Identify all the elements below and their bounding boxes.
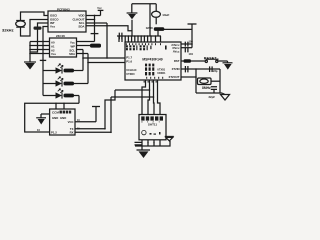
- pin label columns bottom: [145, 64, 154, 76]
- wire xtal bottom bus: [196, 92, 222, 94]
- svg-text:AVcc: AVcc: [173, 50, 180, 54]
- capacitor C6: [210, 66, 213, 72]
- svg-text:PCF8563: PCF8563: [57, 8, 70, 12]
- wire CCM gnd stub 2: [63, 103, 65, 109]
- wire U4 bottom stubs: [142, 140, 160, 146]
- wire U3 DVcc: [181, 43, 192, 45]
- wire D1 to net: [74, 70, 83, 72]
- svg-text:RST: RST: [174, 59, 180, 63]
- resistor R4: [90, 44, 101, 48]
- wire address bundle down: [29, 42, 31, 63]
- wire U3 XT2IN: [181, 68, 220, 70]
- wire U2 SDA to net: [77, 54, 89, 84]
- wire U2 VCC: [77, 41, 95, 43]
- capacitor C7: [211, 87, 217, 93]
- resistor R6: [184, 59, 192, 63]
- svg-text:SDA: SDA: [69, 52, 75, 56]
- wire U2 WP: [77, 45, 91, 47]
- svg-text:UTXD0: UTXD0: [126, 73, 135, 76]
- capacitor C4: [185, 47, 188, 52]
- wire U2 A2: [30, 49, 50, 51]
- svg-text:GND: GND: [146, 26, 154, 30]
- svg-text:XT2IN: XT2IN: [172, 67, 180, 71]
- junction: [29, 53, 31, 55]
- LED D1: [43, 64, 63, 74]
- wire SDA net U1 to bus: [86, 26, 132, 31]
- wire U4 bottom bus: [135, 145, 160, 147]
- svg-text:104: 104: [189, 39, 194, 43]
- ground GND5: [221, 93, 230, 100]
- junction: [149, 89, 151, 91]
- wire CCM VCC: [75, 121, 96, 123]
- capacitor C2: [119, 33, 122, 40]
- wire CCM gnd stub 1: [55, 103, 57, 109]
- LED D2: [43, 77, 63, 87]
- wire U3 RST: [181, 60, 205, 62]
- wire U3 XT2OUT: [181, 76, 196, 78]
- power VCC2 LED rail: [40, 60, 46, 95]
- wire U3 bottom pin 4: [158, 80, 161, 115]
- pin numbers below U3: [144, 81, 157, 83]
- junction: [195, 76, 197, 78]
- wire Y1 pin1 to U1 OSCI: [21, 12, 49, 21]
- wire Vcc link: [158, 29, 192, 36]
- wire Vcc vertical to U2: [94, 16, 96, 34]
- svg-text:Vss: Vss: [50, 25, 56, 29]
- module U5 CCM wireless: [50, 109, 75, 135]
- junction: [63, 103, 65, 105]
- resistor R3: [64, 94, 75, 98]
- wire U1 VDD: [86, 15, 101, 17]
- wire U1 CLKOUT: [86, 19, 95, 21]
- svg-text:SDA: SDA: [78, 25, 85, 29]
- svg-text:VCC: VCC: [68, 120, 74, 124]
- ground GND7: [165, 136, 174, 141]
- RTC U1 PCF8563: [48, 8, 86, 32]
- junction: [147, 142, 148, 143]
- capacitor C5: [185, 66, 188, 72]
- junction: [110, 132, 112, 134]
- pin numbers U4: [141, 121, 160, 124]
- wire top supply bus: [117, 35, 161, 37]
- svg-text:UCLKA0: UCLKA0: [126, 69, 137, 72]
- svg-text:P1.6: P1.6: [126, 59, 132, 63]
- junction: [191, 43, 193, 45]
- wire U2 A1: [30, 45, 50, 47]
- crystal Y2 8MHz: [198, 78, 221, 85]
- wire SCL to U3 P1.7: [83, 57, 125, 59]
- wire U1 VSS to rail: [43, 27, 48, 61]
- wire xtal right leg: [219, 69, 221, 93]
- net label Tx: [34, 27, 42, 30]
- wire SCL net U1 down: [86, 23, 107, 58]
- junction: [106, 57, 108, 59]
- svg-text:104: 104: [189, 52, 194, 56]
- svg-text:CCM: CCM: [52, 111, 59, 115]
- wire below gnd: [131, 20, 133, 36]
- ground GND2: [36, 118, 46, 125]
- ground GND6: [137, 146, 151, 158]
- ground GND1: [24, 62, 36, 70]
- svg-text:URXD1: URXD1: [157, 72, 166, 75]
- wire Y1 pin2 to U1 OSCO: [21, 20, 49, 37]
- svg-text:RX: RX: [70, 131, 74, 135]
- capacitor C3: [185, 42, 188, 47]
- junction: [82, 57, 84, 59]
- power VCC4: [188, 24, 197, 48]
- junction: [94, 19, 96, 21]
- svg-text:XT2OUT: XT2OUT: [168, 75, 179, 79]
- wire upper bus: [132, 3, 156, 5]
- power VCC1: [97, 7, 103, 15]
- svg-text:Vss: Vss: [51, 52, 56, 56]
- wire riser: [131, 4, 133, 13]
- sensor U4 SHT11: [139, 115, 166, 140]
- capacitor C8: [135, 142, 142, 145]
- pin labels UTXD1 URXD1: [157, 69, 166, 75]
- wire D3 to loop: [74, 96, 79, 104]
- pin number ticks bottom: [146, 77, 163, 79]
- EEPROM U2 24C16: [50, 34, 77, 57]
- power VCC3: [92, 107, 100, 122]
- crystal Y1 32kHz: [16, 20, 26, 27]
- wire riser 2: [149, 4, 151, 36]
- svg-text:10uF: 10uF: [162, 13, 169, 17]
- svg-text:GND: GND: [52, 116, 58, 120]
- junction: [104, 128, 106, 130]
- junction: [153, 96, 155, 98]
- wire U4 pin1 to gnd arrow: [160, 141, 170, 146]
- resistor R2: [64, 82, 75, 86]
- junction: [195, 68, 197, 70]
- pin label columns top: [126, 45, 167, 50]
- ground GND4: [223, 61, 233, 70]
- resistor R1: [64, 69, 75, 73]
- junction: [29, 45, 31, 47]
- junction row: [124, 35, 156, 37]
- wire U2 VSS: [30, 53, 50, 55]
- svg-text:24C16: 24C16: [56, 34, 65, 38]
- wire SDA to U3 P1.6: [88, 62, 125, 64]
- pin number ticks top: [126, 43, 161, 45]
- wire CCM loop: [25, 103, 79, 132]
- wire CCM gnd pin left: [41, 114, 50, 118]
- svg-text:MSP430F149: MSP430F149: [142, 57, 162, 61]
- ground GND3: [127, 13, 138, 19]
- wire U3 bottom pin 2: [148, 80, 150, 115]
- svg-text:GND: GND: [60, 116, 66, 120]
- junction: [94, 15, 96, 17]
- wire U2 A0: [30, 41, 50, 43]
- LED D3: [43, 89, 63, 99]
- svg-text:P1.2: P1.2: [51, 131, 57, 135]
- wire U2 SCL to net: [77, 50, 84, 71]
- wire U3 AVcc: [181, 47, 192, 49]
- MCU U3 MSP430F149: [125, 42, 181, 80]
- svg-text:22p: 22p: [213, 69, 218, 73]
- wire xtal left leg: [195, 69, 197, 93]
- wire D2 to net: [74, 83, 88, 85]
- junction: [55, 103, 57, 105]
- svg-text:32kHz: 32kHz: [2, 28, 14, 33]
- junction: [153, 142, 154, 143]
- switch S1: [205, 59, 227, 62]
- wire U3 top pin stubs: [119, 36, 161, 42]
- resistor R5: [154, 27, 165, 31]
- svg-text:22pF: 22pF: [209, 95, 216, 99]
- wire CCM TX to U3: [75, 90, 150, 129]
- wire U1 INT: [30, 23, 48, 52]
- junction: [29, 49, 31, 51]
- svg-text:8MHz: 8MHz: [202, 86, 211, 90]
- wire CCM RX to U3: [75, 97, 154, 132]
- wire U3 bottom pin 1: [142, 80, 146, 115]
- wire U3 bottom pin 3: [153, 80, 156, 115]
- junction: [87, 62, 89, 64]
- power VCC5: [91, 34, 99, 42]
- capacitor C1 electrolytic: [152, 4, 161, 25]
